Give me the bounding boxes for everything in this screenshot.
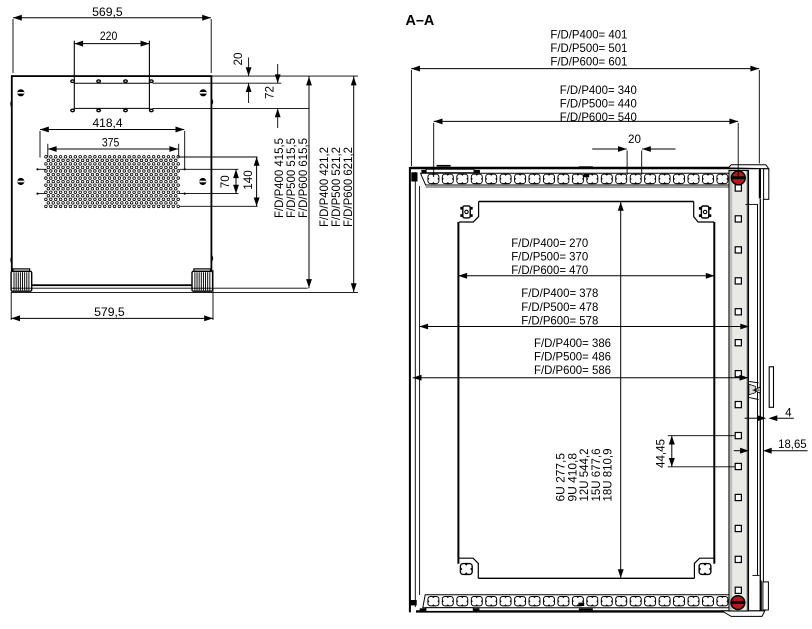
plate fixing screw top-left (460, 206, 472, 218)
dim rack units 6U-18U vertical (556, 202, 624, 578)
bottom cap profile (722, 611, 765, 617)
dim F/D/P 270/370/470 plate width (458, 236, 714, 279)
top edge lip detail (437, 165, 451, 167)
left view latch bump bottom-right (211, 255, 212, 262)
dim 20 hole pitch (592, 133, 675, 175)
svg-text:20: 20 (232, 53, 245, 66)
bottom punched band (423, 595, 729, 608)
frame top edge (410, 167, 758, 169)
frame bottom edge (416, 610, 762, 612)
left view hinge bump bottom-left (11, 256, 12, 264)
dim 375 vent field (48, 137, 179, 158)
top cap profile (728, 165, 769, 169)
captive screw top red (731, 171, 745, 185)
svg-text:F/D/P600 615,5: F/D/P600 615,5 (297, 138, 310, 218)
rear cover screw top-left (17, 89, 24, 96)
dim 579,5 bottom (11, 270, 213, 321)
dim 18,65 door offset (734, 438, 808, 453)
dim 44,45 hole spacing (655, 436, 735, 468)
svg-text:4: 4 (785, 407, 792, 420)
vertical rack rail (729, 171, 749, 612)
dim 418,4 vent cutout (40, 117, 185, 169)
svg-text:44,45: 44,45 (655, 439, 668, 468)
svg-text:F/D/P400= 340: F/D/P400= 340 (560, 83, 637, 97)
ventilation perforation field (45, 156, 180, 208)
dim 20 top right (232, 53, 252, 104)
svg-text:12U 544,2: 12U 544,2 (579, 449, 591, 502)
extension line gland bottom edge to 72 dim (153, 107, 310, 109)
mounting plate left edge thick (457, 222, 459, 564)
door hem tick bottom (752, 574, 759, 576)
rear cover screw bottom-left (17, 178, 24, 185)
door section lines (757, 204, 759, 575)
bottom edge lip detail (579, 608, 593, 610)
dim F/D/P 401/501/601 overall width (411, 27, 759, 166)
svg-text:F/D/P600= 586: F/D/P600= 586 (534, 363, 611, 377)
svg-text:F/D/P600= 470: F/D/P600= 470 (511, 263, 588, 277)
top edge lip detail 2 (579, 166, 593, 168)
door top profile (759, 169, 761, 199)
door hem tick top (745, 203, 757, 205)
extension lines vent 70 dim with end dots (38, 168, 46, 170)
rear cover screw top-right (200, 89, 207, 96)
ground line 2 (11, 291, 358, 293)
ground line 1 (11, 287, 308, 289)
left view top edge extension line (212, 75, 358, 77)
left view: enclosure rear panel outline (12, 76, 212, 285)
rear cover screw bottom-right (199, 178, 206, 185)
band underline (426, 186, 729, 188)
svg-text:F/D/P600 621,2: F/D/P600 621,2 (342, 147, 355, 227)
svg-text:A–A: A–A (406, 13, 435, 29)
dim 70 (219, 169, 239, 193)
svg-text:F/D/P500= 370: F/D/P500= 370 (511, 249, 588, 263)
svg-text:F/D/P400= 378: F/D/P400= 378 (521, 286, 598, 300)
dim F/D/P 340/440/540 width (434, 83, 739, 178)
dim 4 door gap (745, 407, 794, 422)
frame corner gusset top-left (411, 172, 417, 181)
svg-text:18,65: 18,65 (778, 438, 807, 451)
gland plate screws (71, 80, 75, 83)
svg-text:569,5: 569,5 (92, 6, 123, 19)
svg-text:579,5: 579,5 (94, 306, 125, 319)
dim F/D/P 378/478/578 inner width (419, 286, 749, 329)
extension line gland top edge to 72 dim (153, 82, 282, 84)
svg-text:140: 140 (242, 170, 255, 190)
svg-text:F/D/P500= 501: F/D/P500= 501 (550, 41, 627, 55)
gland plate flange vertical lines (73, 41, 75, 110)
svg-text:F/D/P400= 386: F/D/P400= 386 (534, 336, 611, 350)
top gland rail bar (426, 169, 474, 173)
svg-text:F/D/P600= 601: F/D/P600= 601 (550, 55, 627, 69)
dim F/D/P depth 421,2 vertical (318, 76, 356, 292)
left view latch bump top-right (211, 98, 212, 105)
svg-text:18U 810,9: 18U 810,9 (603, 449, 615, 502)
bottom gland rail bar (426, 608, 473, 612)
dim 569,5 top (13, 6, 211, 73)
door latch detail (749, 382, 761, 400)
svg-text:15U 677,6: 15U 677,6 (591, 449, 603, 502)
svg-text:F/D/P600= 540: F/D/P600= 540 (560, 110, 637, 124)
foot left (11, 269, 32, 291)
mounting plate outline (459, 202, 714, 578)
svg-text:F/D/P500= 486: F/D/P500= 486 (534, 350, 611, 364)
door stiffener bracket (769, 367, 773, 408)
frame corner gusset bottom-left (410, 600, 417, 605)
svg-text:F/D/P600= 578: F/D/P600= 578 (521, 314, 598, 328)
plate corner cutout bottom-left (460, 564, 472, 575)
svg-text:F/D/P400= 401: F/D/P400= 401 (550, 27, 627, 41)
captive screw bottom red (731, 596, 745, 610)
svg-text:418,4: 418,4 (93, 117, 124, 130)
plate fixing screw top-right (699, 206, 711, 218)
extension lines vent 140 dim (180, 156, 258, 158)
top punched band (421, 173, 730, 185)
dim 220 gland plate (74, 30, 149, 47)
svg-text:20: 20 (628, 133, 641, 146)
svg-text:F/D/P500= 478: F/D/P500= 478 (521, 300, 598, 314)
svg-text:72: 72 (263, 86, 276, 99)
dim 72 gland depth (263, 64, 280, 128)
svg-text:375: 375 (102, 137, 120, 150)
door bottom profile (760, 581, 762, 611)
svg-text:6U 277,5: 6U 277,5 (556, 453, 568, 502)
svg-text:220: 220 (100, 30, 118, 43)
foot right (192, 269, 213, 291)
plate corner cutout bottom-right (699, 564, 711, 575)
rack rail square holes (735, 185, 741, 594)
frame left wall inner lines (414, 172, 416, 607)
svg-text:9U 410,8: 9U 410,8 (567, 453, 579, 502)
gland plate top edge (74, 82, 149, 84)
frame left wall outer (409, 167, 411, 612)
dim F/D/P depth 415,5 vertical (273, 76, 312, 288)
dim 140 (242, 157, 260, 206)
svg-text:70: 70 (219, 175, 232, 188)
dim F/D/P 386/486/586 width over rails (413, 336, 749, 381)
svg-text:F/D/P400= 270: F/D/P400= 270 (511, 236, 588, 250)
mounting plate right edge thick (713, 222, 715, 564)
svg-text:F/D/P500= 440: F/D/P500= 440 (560, 97, 637, 111)
gland plate bottom edge (74, 107, 149, 109)
left view hinge bump top-left (11, 100, 12, 108)
